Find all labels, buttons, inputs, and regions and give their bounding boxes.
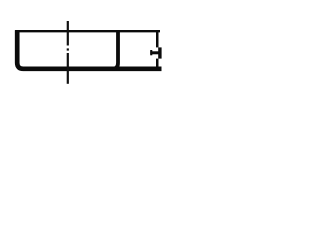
body outline top line xyxy=(15,30,160,32)
body left edge and thick base line with rounded bottom-left fillet xyxy=(17,30,161,69)
pin shaft xyxy=(150,51,159,54)
right end face line, upper segment xyxy=(156,30,159,47)
pin tip tick xyxy=(150,50,152,55)
pin head xyxy=(158,47,161,58)
vertical dash-dot centerline xyxy=(67,21,69,84)
step line with bottom fillet curving left xyxy=(112,32,118,70)
right end face line, lower segment xyxy=(156,59,159,70)
